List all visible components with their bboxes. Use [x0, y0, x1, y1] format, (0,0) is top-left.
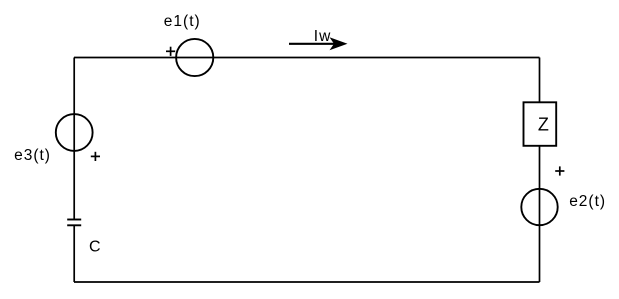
svg-text:Z: Z	[538, 114, 549, 134]
polarity plus of e2	[555, 166, 564, 175]
arrowhead of Iw	[330, 37, 348, 50]
wire top: left corner to right corner	[74, 57, 540, 59]
wire left upper: top-left corner down through e3 to capacitor top plate	[73, 58, 75, 220]
capacitor C top plate	[67, 219, 81, 221]
svg-text:e3(t): e3(t)	[14, 147, 51, 164]
polarity plus of e1	[166, 47, 175, 56]
capacitor C bottom plate	[67, 224, 81, 226]
wire left lower: capacitor bottom plate to bottom-left corner	[73, 225, 75, 282]
impedance Z box	[524, 102, 557, 146]
voltage source e1 circle	[176, 39, 213, 76]
wire bottom	[74, 281, 540, 283]
polarity plus of e3	[91, 152, 100, 161]
svg-text:Iw: Iw	[314, 28, 332, 45]
wire right upper: top-right corner to Z box	[539, 58, 541, 103]
voltage source e3 circle	[56, 114, 93, 151]
svg-text:e1(t): e1(t)	[164, 13, 201, 30]
svg-text:e2(t): e2(t)	[569, 193, 606, 210]
current arrow Iw	[289, 43, 338, 45]
wire right lower: Z box bottom through e2 to bottom-right corner	[539, 146, 541, 282]
svg-text:C: C	[89, 239, 101, 256]
voltage source e2 circle	[521, 189, 557, 225]
